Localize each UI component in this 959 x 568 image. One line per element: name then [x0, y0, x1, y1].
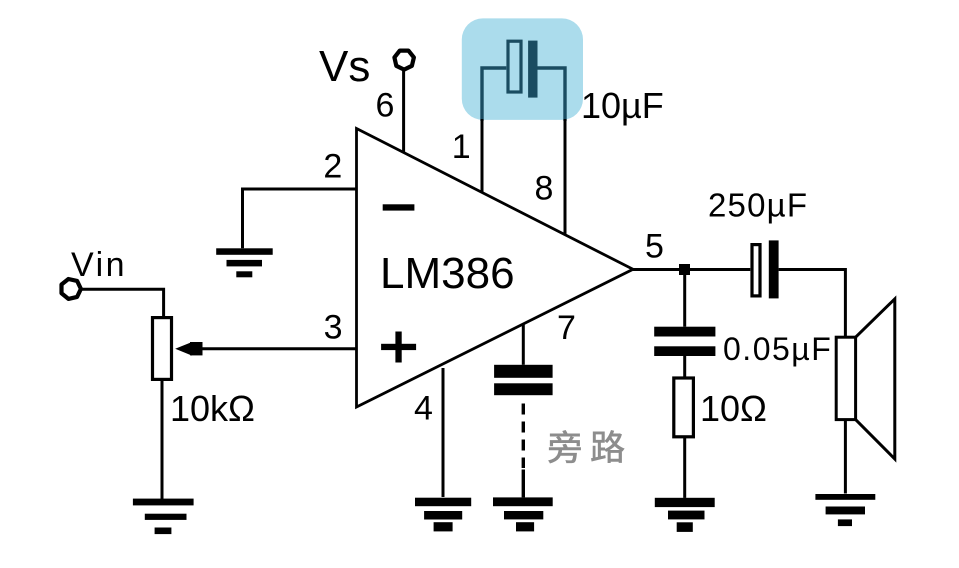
value label 10Ω — [700, 388, 767, 429]
speaker cone — [856, 299, 895, 459]
svg-text:Vs: Vs — [319, 42, 370, 91]
pin number 8 — [535, 170, 554, 208]
ground (pin 2) — [216, 248, 273, 277]
bypass capacitor C2 plates — [494, 365, 552, 395]
resistor R2 10Ω body — [674, 378, 694, 437]
value label 10µF — [581, 85, 664, 126]
label 旁路 (bypass) — [548, 430, 625, 463]
ground (pin 4) — [415, 498, 471, 532]
svg-text:4: 4 — [414, 390, 433, 428]
svg-text:8: 8 — [535, 170, 554, 208]
capacitor C4 250µF plates — [752, 240, 779, 298]
value label 10kΩ — [170, 388, 255, 429]
pin number 5 — [645, 228, 664, 266]
svg-text:5: 5 — [645, 228, 664, 266]
ground (potentiometer) — [133, 499, 194, 534]
pin number 1 — [452, 128, 471, 166]
part label LM386 — [380, 249, 515, 298]
label Vs — [319, 42, 370, 91]
wire pin 4 to ground — [442, 368, 445, 497]
ground (speaker) — [815, 494, 875, 526]
svg-text:6: 6 — [376, 87, 395, 125]
svg-text:3: 3 — [324, 309, 343, 347]
wire speaker to ground — [844, 420, 847, 494]
value label 0.05µF — [723, 331, 832, 367]
junction node at output — [679, 264, 690, 275]
pin number 4 — [414, 390, 433, 428]
wire Vin to potentiometer top — [80, 289, 164, 317]
svg-text:0.05µF: 0.05µF — [723, 331, 832, 367]
wire pin 8 — [564, 119, 567, 235]
wiper arrow into potentiometer — [175, 342, 202, 356]
speaker LS1 driver body — [836, 337, 855, 419]
wire resistor to ground — [683, 437, 686, 498]
svg-text:10kΩ: 10kΩ — [170, 388, 255, 429]
wire 250µF to speaker — [779, 270, 846, 338]
svg-text:7: 7 — [557, 309, 576, 347]
svg-text:1: 1 — [452, 128, 471, 166]
op-amp U1 LM386 triangle — [357, 129, 634, 408]
highlight box around gain capacitor — [462, 18, 583, 120]
svg-text:250µF: 250µF — [708, 187, 808, 224]
dashed wire bypass capacitor to ground — [522, 404, 525, 498]
input terminal (Vin) — [62, 279, 81, 299]
value label 250µF — [708, 187, 808, 224]
ground (Zobel network) — [655, 498, 715, 532]
svg-text:10Ω: 10Ω — [700, 388, 767, 429]
wire pin 6 to Vs terminal — [402, 71, 405, 153]
pin number 2 — [323, 148, 342, 186]
non-inverting input plus sign — [381, 332, 416, 363]
potentiometer R1 body — [153, 318, 172, 380]
capacitor C1 10µF (between pins 1 and 8) — [482, 41, 565, 121]
label Vin — [71, 246, 127, 284]
wire pin 5 output — [633, 268, 750, 271]
wire wiper to pin 3 — [193, 347, 357, 350]
svg-text:2: 2 — [323, 148, 342, 186]
ground (bypass) — [493, 497, 553, 531]
pin number 3 — [324, 309, 343, 347]
wire potentiometer bottom to ground — [161, 379, 164, 499]
capacitor C3 0.05µF plates — [654, 327, 715, 356]
wire junction down to 0.05µF — [683, 270, 686, 327]
svg-text:Vin: Vin — [71, 246, 127, 284]
pin number 7 — [557, 309, 576, 347]
supply terminal (Vs) — [394, 51, 414, 70]
wire pin 7 to bypass capacitor — [522, 324, 525, 365]
svg-text:LM386: LM386 — [380, 249, 515, 298]
pin number 6 — [376, 87, 395, 125]
inverting input minus sign — [383, 204, 415, 210]
svg-text:10µF: 10µF — [581, 85, 664, 126]
wire pin 1 — [481, 119, 484, 193]
wire 0.05µF to resistor — [683, 356, 686, 378]
wire pin 2 to ground — [243, 189, 357, 248]
